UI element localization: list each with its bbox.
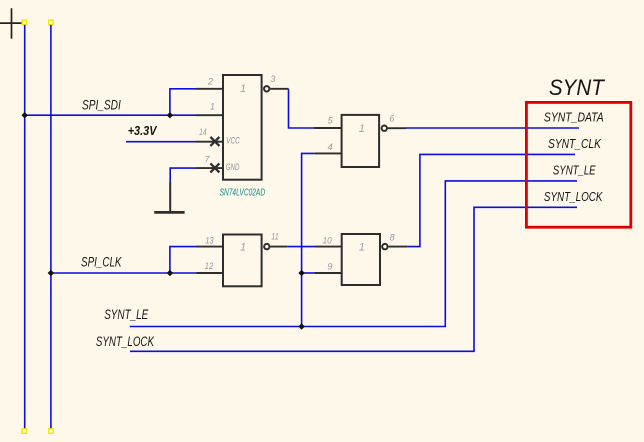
svg-text:SYNT_LE: SYNT_LE [553,163,596,178]
wire U1:B pin 4 down to SYNT_LE net [302,153,315,326]
wire SPI_SDI horizontal to pin 1 [25,114,197,116]
junction on rail at SPI_SDI [22,112,28,118]
pin 6 of U1:B [388,127,406,129]
module title SYNT [549,75,606,100]
svg-text:1: 1 [359,241,365,253]
pin number 5 [328,115,334,125]
net label +3.3V [128,123,158,138]
pin 7 GND of U1:A [196,167,223,169]
svg-text:8: 8 [390,233,395,243]
pin number 3 [270,74,275,84]
pin number 11 [271,232,278,242]
svg-text:GND: GND [226,162,240,173]
svg-text:4: 4 [328,142,333,152]
pin number 7 [204,155,210,165]
net label SPI_CLK [81,255,122,270]
output bubble of U1:D [264,244,269,249]
pin number 6 [389,113,394,123]
gate U1:A symbol label 1 [240,83,246,95]
svg-text:12: 12 [205,261,214,271]
svg-text:+3.3V: +3.3V [128,123,158,138]
pin 9 of U1:C [315,272,342,274]
gate U1:C symbol label 1 [359,241,365,253]
junction SPI_SDI branch [167,112,173,118]
part value SN74LVC02AD [220,187,266,198]
svg-text:SYNT_CLK: SYNT_CLK [548,136,602,151]
port label SYNT_LE [553,163,596,178]
svg-text:SN74LVC02AD: SN74LVC02AD [220,187,266,198]
pin number 12 [205,261,214,271]
wire SYNT_LOCK net [130,207,577,351]
junction SYNT_LE with pin4/pin9 net [298,323,304,329]
sheet origin marker [0,8,22,39]
pin number 1 [210,102,215,112]
wire branch up to pin 2 [170,89,197,115]
pin 8 of U1:C [389,246,408,248]
wire vertical rail SPI_CLK [50,25,52,429]
pin number 8 [390,233,395,243]
pin 2 of U1:A [196,88,223,90]
junction SPI_CLK branch [167,270,173,276]
port label SYNT_LOCK [544,189,604,204]
svg-text:1: 1 [240,83,246,95]
wire U1:D output to U1:C pin 10 [287,246,315,248]
svg-text:6: 6 [389,113,394,123]
NOR gate U1:B body [342,115,380,167]
gate U1:B symbol label 1 [359,123,365,135]
port square bottom of SPI_SDI rail [22,429,26,433]
svg-text:3: 3 [270,74,275,84]
wire U1:A output to U1:B pin 5 [289,89,315,128]
wire stub pin 9 to vertical net [302,272,315,274]
pin 5 of U1:B [314,127,341,129]
pin 11 of U1:D [271,246,288,248]
svg-text:SYNT_LE: SYNT_LE [104,307,149,322]
pin 1 of U1:A [196,114,223,116]
junction on rail at SPI_CLK [48,270,54,276]
wire U1:C output to SYNT_CLK [407,154,575,246]
no-connect X on pin 14 [210,137,219,146]
pin number 2 [207,77,213,87]
pin 14 VCC of U1:A [196,141,223,143]
output bubble of U1:A [264,86,269,91]
port label SYNT_DATA [544,110,604,125]
svg-text:5: 5 [328,115,334,125]
wire SPI_CLK horizontal to pin 12 [51,272,197,274]
svg-text:2: 2 [207,77,213,87]
gate U1:D symbol label 1 [240,242,246,254]
svg-text:13: 13 [205,235,214,245]
pin name GND [226,162,240,173]
pin 13 of U1:D [196,246,223,248]
svg-text:11: 11 [271,232,278,242]
svg-text:1: 1 [210,102,215,112]
svg-text:14: 14 [199,127,207,137]
port label SYNT_CLK [548,136,602,151]
junction at pin 9 net [298,270,304,276]
pin 10 of U1:C [315,246,342,248]
wire +3.3V to pin 14 [126,141,197,143]
svg-text:1: 1 [240,242,246,254]
net label SPI_SDI [82,97,121,112]
pin 3 of U1:A [270,88,288,90]
pin number 4 [328,142,333,152]
NOR gate U1:A body [223,75,262,180]
output bubble of U1:C [382,244,387,249]
pin 4 of U1:B [314,152,341,154]
pin number 10 [323,236,332,246]
NOR gate U1:C body [342,234,380,285]
NOR gate U1:D body [223,235,262,287]
svg-text:SYNT: SYNT [549,75,606,100]
ground symbol [154,181,184,212]
svg-text:SYNT_DATA: SYNT_DATA [544,110,604,125]
svg-text:VCC: VCC [226,135,239,146]
port square top of SPI_SDI rail [22,20,26,24]
svg-text:SYNT_LOCK: SYNT_LOCK [96,334,155,349]
wire SYNT_LE net [130,181,577,327]
svg-text:1: 1 [359,123,365,135]
svg-text:9: 9 [327,261,332,271]
pin number 14 [199,127,207,137]
svg-text:10: 10 [323,236,332,246]
wire U1:B output to SYNT_DATA [406,127,579,129]
svg-text:7: 7 [204,155,210,165]
net label SYNT_LOCK [96,334,155,349]
net label SYNT_LE [104,307,149,322]
wire branch up to pin 13 [170,247,197,273]
output bubble of U1:B [382,126,387,131]
pin number 13 [205,235,214,245]
pin number 9 [327,261,332,271]
pin 12 of U1:D [196,272,223,274]
wire vertical rail SPI_SDI [24,25,26,429]
wire pin 7 to ground [170,168,197,181]
svg-text:SYNT_LOCK: SYNT_LOCK [544,189,604,204]
svg-text:SPI_CLK: SPI_CLK [81,255,122,270]
pin name VCC [226,135,239,146]
SYNT module red box [526,102,630,227]
port square top of SPI_CLK rail [49,20,53,24]
svg-text:SPI_SDI: SPI_SDI [82,97,121,112]
no-connect X on pin 7 [210,163,219,172]
port square bottom of SPI_CLK rail [49,429,53,433]
